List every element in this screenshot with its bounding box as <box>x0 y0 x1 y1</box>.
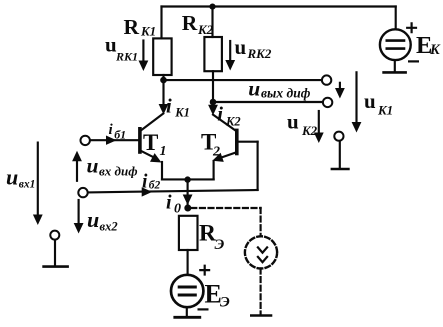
svg-text:K2: K2 <box>301 123 318 138</box>
svg-text:K: K <box>429 42 441 58</box>
svg-text:Э: Э <box>215 237 225 253</box>
svg-text:1: 1 <box>160 144 167 159</box>
svg-text:i: i <box>217 103 223 125</box>
svg-text:u: u <box>364 89 376 113</box>
svg-text:б2: б2 <box>149 180 161 192</box>
svg-text:RK1: RK1 <box>115 50 138 64</box>
svg-text:б1: б1 <box>114 128 126 142</box>
svg-text:u: u <box>87 207 99 232</box>
svg-text:вых диф: вых диф <box>261 86 311 101</box>
svg-text:Э: Э <box>220 294 230 310</box>
svg-text:T: T <box>143 130 158 155</box>
svg-text:u: u <box>248 77 260 101</box>
svg-text:2: 2 <box>212 145 220 160</box>
svg-text:i: i <box>109 122 114 138</box>
svg-text:K2: K2 <box>225 114 241 128</box>
svg-text:u: u <box>287 110 299 134</box>
svg-text:K1: K1 <box>174 105 190 119</box>
svg-text:u: u <box>87 153 99 177</box>
svg-text:вх1: вх1 <box>19 179 36 191</box>
svg-text:R: R <box>124 15 140 39</box>
svg-text:i: i <box>166 96 172 118</box>
svg-text:u: u <box>6 164 18 189</box>
svg-text:K1: K1 <box>377 103 393 118</box>
svg-text:K1: K1 <box>140 24 156 39</box>
svg-text:RK2: RK2 <box>247 46 272 61</box>
svg-text:R: R <box>182 11 198 35</box>
svg-text:K2: K2 <box>197 22 214 37</box>
svg-text:0: 0 <box>174 202 181 217</box>
svg-text:вх2: вх2 <box>100 219 118 233</box>
svg-text:i: i <box>142 171 148 192</box>
svg-text:i: i <box>166 192 172 214</box>
svg-text:u: u <box>235 35 247 59</box>
svg-text:вх диф: вх диф <box>99 163 138 178</box>
